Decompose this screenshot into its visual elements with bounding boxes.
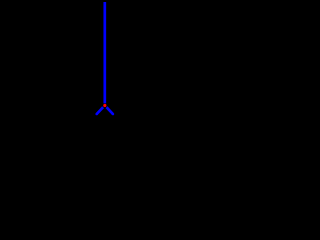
wire: arrowhead barb left bbox=[97, 107, 103, 114]
node: red tip dot bbox=[103, 104, 106, 107]
wire: arrowhead barb right end cap bbox=[112, 113, 115, 116]
wire: arrowhead barb right bbox=[107, 107, 113, 114]
wire: arrowhead barb left end cap bbox=[95, 113, 98, 116]
wire: blue arrow shaft bbox=[103, 2, 106, 103]
